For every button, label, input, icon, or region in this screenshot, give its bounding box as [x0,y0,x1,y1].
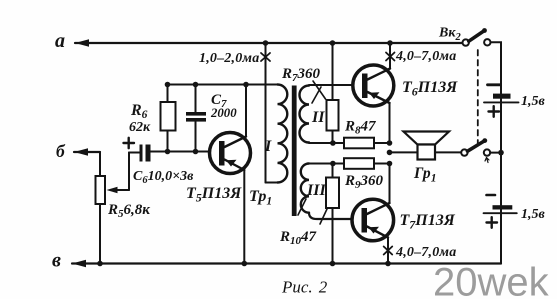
junction C7-base [193,149,199,155]
svg-text:III: III [306,182,326,199]
svg-text:а: а [55,30,65,52]
svg-text:1,5в: 1,5в [521,207,546,222]
current mark 4,0-7,0ma top [386,53,395,61]
wire battery bottom [500,213,502,263]
junction R6 top [165,82,171,88]
node b arrow [74,148,88,156]
battery B2 minus [487,194,496,197]
R10 leader [320,209,327,224]
switch Vk2 bottom pole [461,149,467,155]
wire T6 emitter down [389,103,391,143]
winding III [301,164,309,213]
wire T5 collector up [245,85,247,137]
wire winding II bottom lead [309,142,344,144]
svg-text:II: II [311,109,325,126]
svg-text:4,0–7,0ма: 4,0–7,0ма [395,245,456,260]
battery B1 plus [489,106,500,117]
transistor T6 [353,65,394,106]
svg-text:Т7П13Я: Т7П13Я [400,212,456,232]
resistor R10 [326,178,339,209]
svg-text:C610,0×3в: C610,0×3в [133,169,194,186]
wire rail v [72,262,501,264]
wire b down to R5 [99,152,101,176]
wire supply drop from rail a [265,43,267,183]
winding I [278,85,288,183]
svg-text:б: б [56,141,66,161]
speaker Gr1 [404,132,450,145]
junction R6-base [165,149,171,155]
svg-text:R847: R847 [344,119,376,137]
transformer Tr1 core [292,86,297,217]
resistor R6 [161,102,176,131]
wire rail a [75,42,463,44]
wire winding I bottom lead [266,182,278,184]
resistor R9 [344,158,374,169]
switch Vk2 top pole [463,39,469,45]
svg-text:Рис.2: Рис.2 [281,278,328,297]
capacitor C6 plus [124,138,135,148]
svg-text:R56,8к: R56,8к [107,202,150,220]
transistor T7 [352,199,394,241]
switch link dashed [477,50,479,147]
capacitor C6 [140,145,143,162]
switch actuate mark [485,158,489,163]
svg-text:20wek: 20wek [433,261,550,299]
junction T5 collector [243,82,249,88]
svg-text:R9360: R9360 [344,173,384,191]
junction node1 [330,140,336,146]
junction T5 emitter rail [242,261,248,267]
battery B1 minus [488,83,501,86]
svg-text:Т5П13Я: Т5П13Я [186,185,242,205]
wire to C6 [129,152,140,154]
svg-text:I: I [264,138,272,155]
battery B1 [493,94,511,99]
wire T6 collector to rail a [389,43,391,69]
wire winding II top lead to T6 base [309,84,362,86]
winding II leader [312,87,321,103]
resistor R7 [327,100,339,131]
capacitor C7 [186,112,206,116]
wire T7 emitter down [387,238,389,264]
node a arrow [75,39,89,47]
battery B2 plus [487,217,498,228]
junction C7 top [193,82,199,88]
wire winding III top lead [309,163,344,165]
junction R5-rail [97,261,103,267]
wire b rail [74,151,100,153]
winding II [300,86,309,143]
R5 wiper arrow [107,187,118,193]
transistor T5 [210,133,251,174]
wire speaker node line [390,151,418,153]
node v arrow [72,260,86,268]
wire top right corner [491,42,502,95]
wire R5 bottom [99,204,101,264]
winding III leader [298,199,306,215]
svg-text:2000: 2000 [210,106,237,120]
wire T5 emitter down [243,170,245,264]
wire top feedback line [168,84,278,86]
resistor R8 [344,138,374,149]
svg-text:Т6П13Я: Т6П13Я [402,79,458,99]
svg-text:1,0–2,0ма: 1,0–2,0ма [199,51,259,66]
R7 leader [313,81,326,99]
battery B2 [493,205,513,209]
current mark 1,0-2,0ma [261,53,270,61]
svg-text:в: в [52,250,61,272]
potentiometer R5 [96,176,106,204]
wire winding III bottom lead to T7 base [309,213,362,219]
svg-text:1,5в: 1,5в [521,94,546,109]
junction node3 [330,161,336,167]
wire base line T5 [151,151,220,153]
svg-text:R7360: R7360 [281,66,321,84]
current mark 4,0-7,0ma bottom [384,247,393,255]
wire battery mid [500,102,502,205]
svg-text:4,0–7,0ма: 4,0–7,0ма [395,49,456,64]
wire T7 collector up [389,164,391,204]
svg-text:62к: 62к [129,120,151,135]
